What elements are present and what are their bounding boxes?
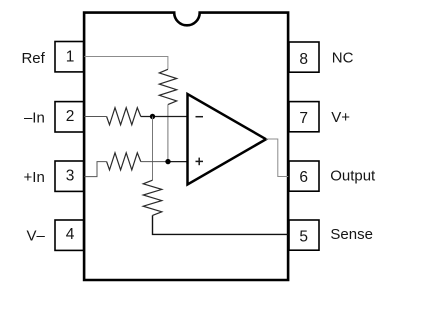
resistor R2 (horizontal, -In) — [107, 108, 141, 125]
svg-text:NC: NC — [332, 50, 354, 67]
svg-text:Ref: Ref — [21, 50, 45, 67]
op-amp plus input symbol — [196, 160, 204, 162]
svg-text:8: 8 — [299, 51, 308, 68]
wire pin3 +In jog — [84, 162, 107, 177]
svg-text:V–: V– — [26, 228, 45, 245]
wire op-amp output to pin6 — [266, 139, 289, 177]
pin 3 box — [55, 161, 84, 191]
wire R3 bottom to pin5 Sense — [153, 215, 290, 234]
resistor R3 (vertical, to Sense) — [143, 180, 162, 215]
wire node A down to bottom resistor — [152, 117, 154, 181]
svg-text:2: 2 — [66, 108, 75, 125]
resistor R4 (horizontal, +In) — [107, 153, 141, 170]
svg-text:6: 6 — [299, 169, 308, 186]
wire pin1 Ref to top resistor — [84, 57, 168, 70]
svg-text:V+: V+ — [331, 109, 350, 126]
pin 4 box — [55, 220, 84, 250]
wire R1 bottom lead down to +input node — [167, 105, 169, 162]
op-amp U1 triangle — [188, 94, 267, 185]
op-amp minus input symbol — [196, 116, 204, 118]
svg-text:4: 4 — [66, 226, 75, 243]
wire pin2 -In lead — [84, 116, 107, 118]
svg-text:–In: –In — [24, 110, 45, 127]
svg-text:Sense: Sense — [330, 226, 373, 243]
svg-text:1: 1 — [66, 48, 75, 65]
pin 5 box — [289, 220, 319, 250]
IC package body U1 with pin-1 notch — [84, 13, 288, 280]
pin 2 box — [55, 102, 84, 132]
svg-text:5: 5 — [299, 229, 308, 246]
svg-text:3: 3 — [66, 168, 75, 185]
node B junction dot (+input) — [165, 159, 170, 164]
resistor R1 (vertical, from Ref wire) — [159, 69, 176, 104]
wire +input line to op-amp — [141, 161, 168, 163]
pin 6 box — [289, 161, 319, 191]
svg-text:+In: +In — [24, 169, 45, 186]
pin 1 box — [55, 42, 84, 72]
svg-text:Output: Output — [330, 167, 376, 184]
pin 7 box — [289, 102, 319, 132]
wire -input line to op-amp — [141, 116, 188, 118]
svg-text:7: 7 — [299, 110, 308, 127]
pin 8 box — [289, 42, 319, 72]
node A junction dot (-input / sense divider) — [150, 114, 155, 119]
